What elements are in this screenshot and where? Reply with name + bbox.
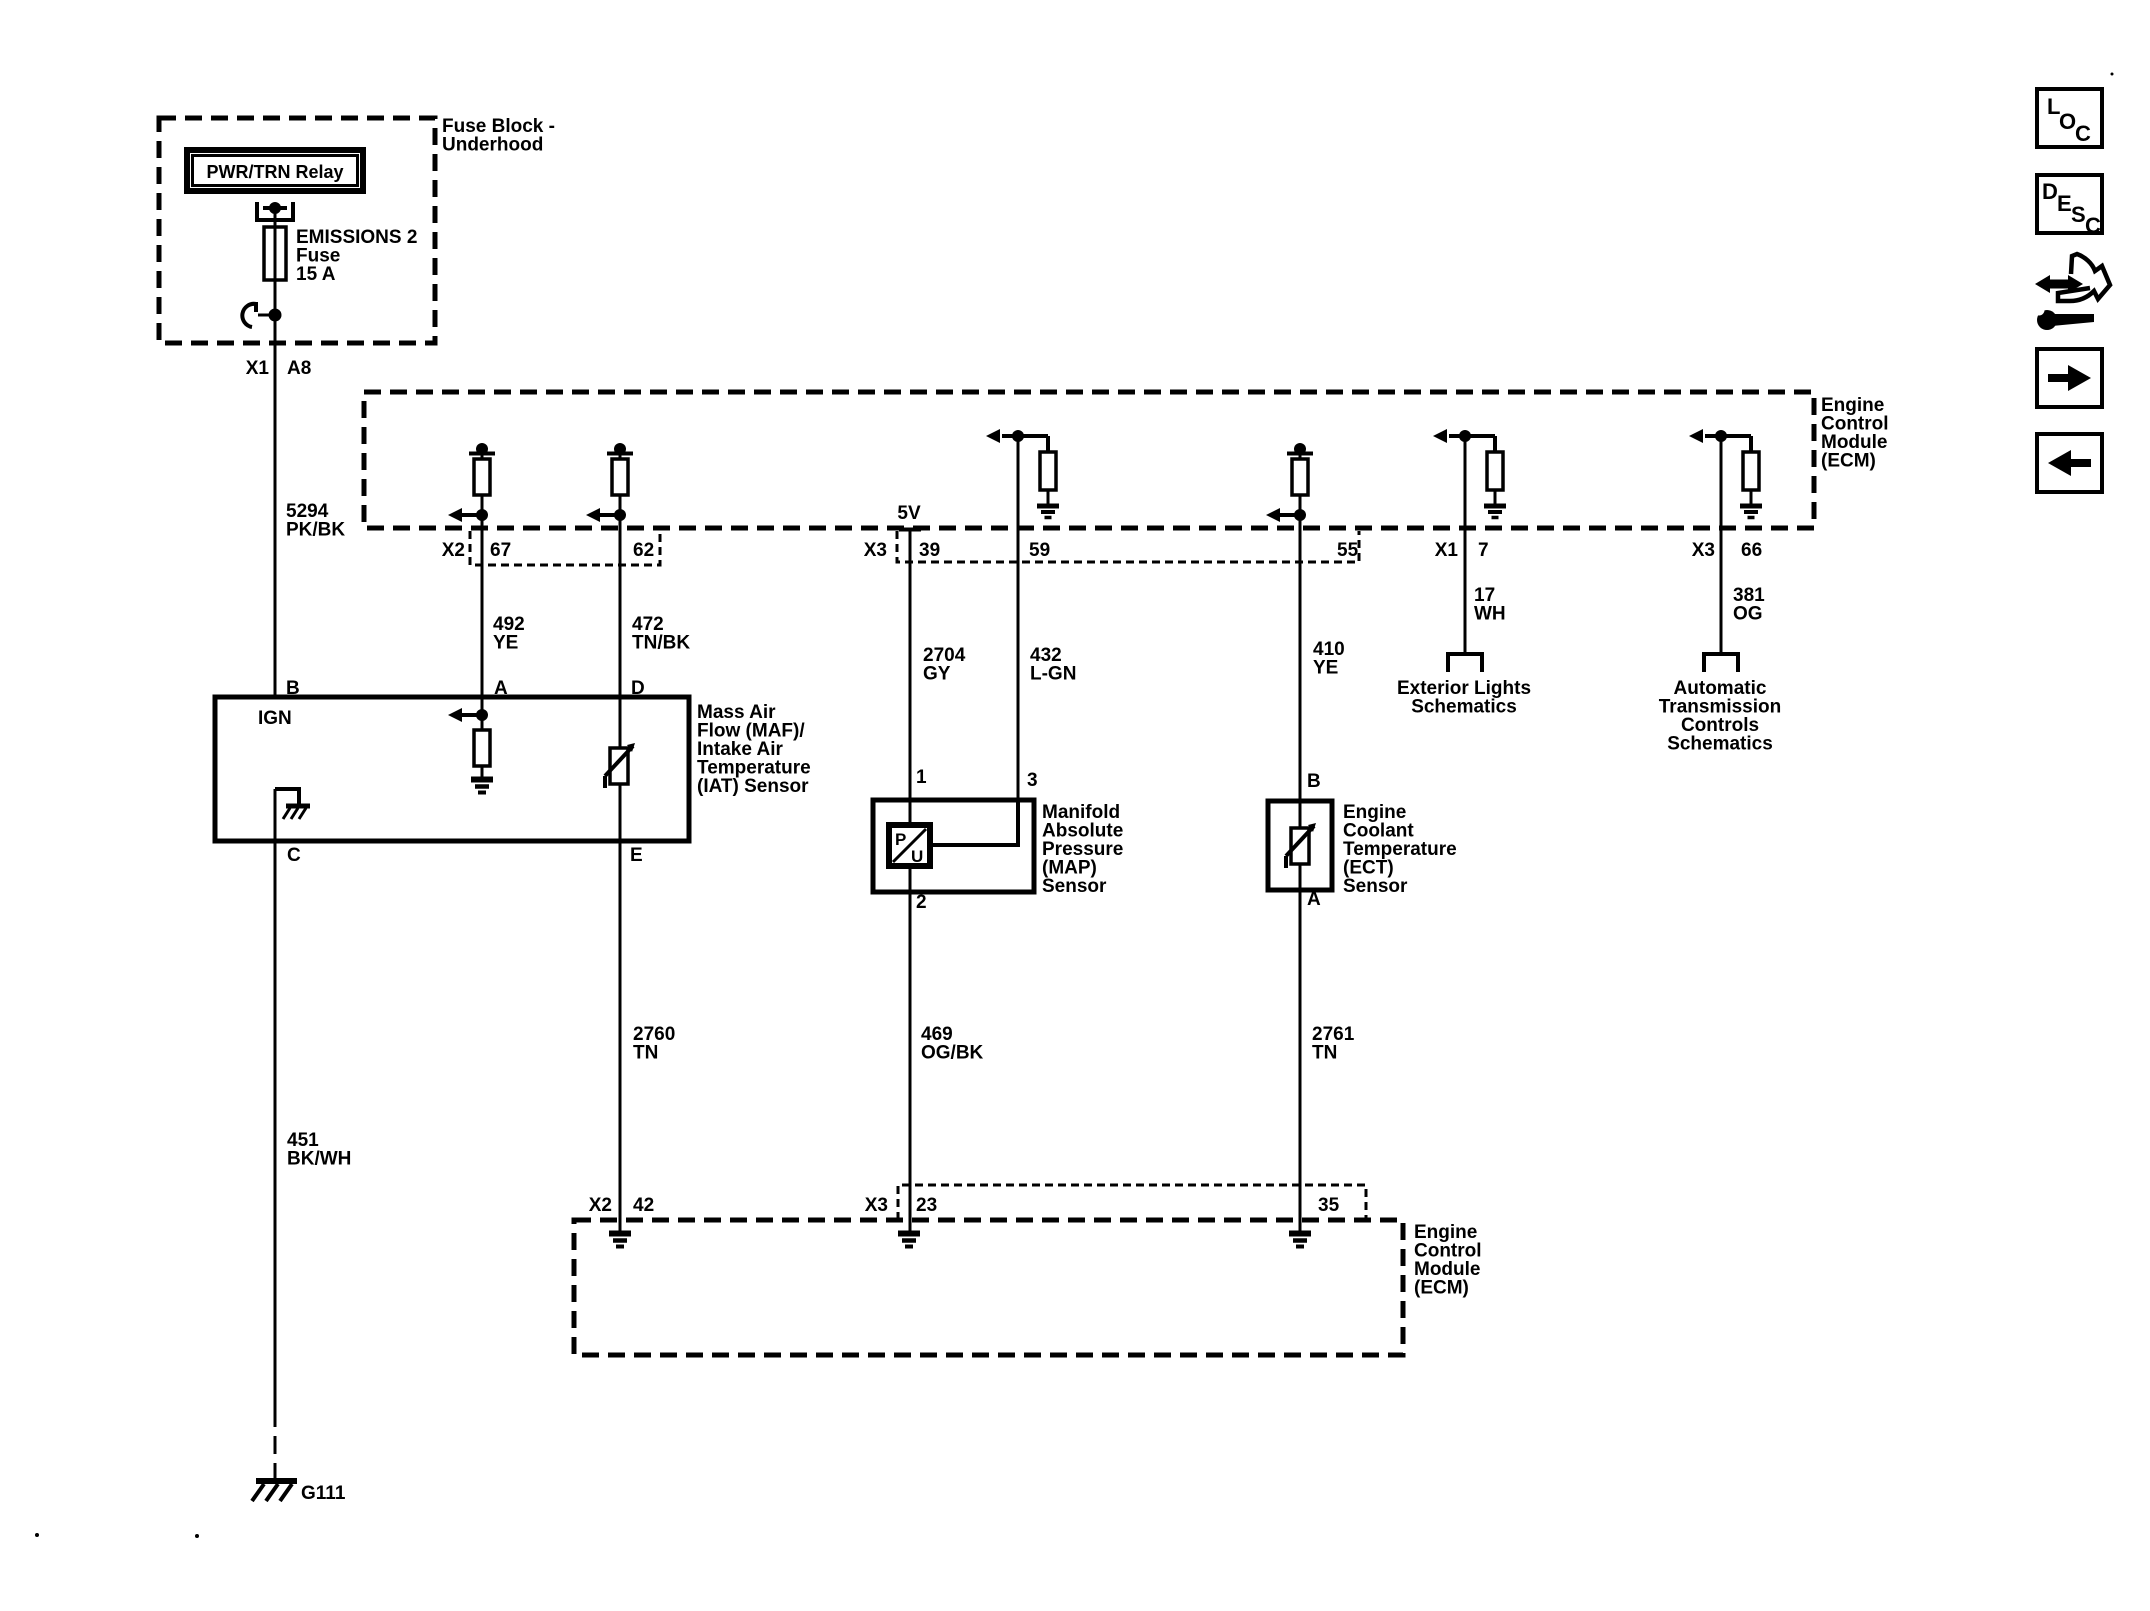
svg-text:C: C xyxy=(2085,213,2101,238)
svg-text:TN: TN xyxy=(633,1043,658,1064)
svg-text:GY: GY xyxy=(923,664,951,685)
svg-text:S: S xyxy=(2071,202,2086,227)
svg-text:X2: X2 xyxy=(589,1195,612,1216)
svg-text:OG: OG xyxy=(1733,604,1763,625)
svg-text:X3: X3 xyxy=(864,540,887,561)
svg-text:A8: A8 xyxy=(287,358,311,379)
svg-text:X1: X1 xyxy=(246,358,270,379)
svg-text:7: 7 xyxy=(1478,540,1489,561)
svg-text:(IAT) Sensor: (IAT) Sensor xyxy=(697,776,809,797)
svg-text:Schematics: Schematics xyxy=(1411,697,1517,718)
svg-text:IGN: IGN xyxy=(258,708,292,729)
svg-text:E: E xyxy=(2057,191,2072,216)
svg-text:67: 67 xyxy=(490,540,511,561)
svg-text:P: P xyxy=(895,830,906,849)
svg-text:B: B xyxy=(1307,771,1321,792)
svg-text:15 A: 15 A xyxy=(296,264,336,285)
svg-text:Sensor: Sensor xyxy=(1042,876,1107,897)
svg-text:C: C xyxy=(287,845,301,866)
svg-text:L-GN: L-GN xyxy=(1030,664,1076,685)
svg-text:66: 66 xyxy=(1741,540,1762,561)
svg-text:23: 23 xyxy=(916,1195,937,1216)
svg-text:59: 59 xyxy=(1029,540,1050,561)
svg-text:TN/BK: TN/BK xyxy=(632,633,690,654)
svg-text:PK/BK: PK/BK xyxy=(286,520,345,541)
svg-text:X3: X3 xyxy=(1692,540,1715,561)
svg-text:Underhood: Underhood xyxy=(442,135,543,156)
svg-text:C: C xyxy=(2075,121,2091,146)
svg-text:OG/BK: OG/BK xyxy=(921,1043,984,1064)
svg-text:35: 35 xyxy=(1318,1195,1340,1216)
svg-text:3: 3 xyxy=(1027,770,1038,791)
svg-text:YE: YE xyxy=(493,633,518,654)
svg-text:X1: X1 xyxy=(1435,540,1459,561)
svg-text:1: 1 xyxy=(916,767,927,788)
svg-text:PWR/TRN Relay: PWR/TRN Relay xyxy=(206,162,343,182)
svg-text:TN: TN xyxy=(1312,1043,1337,1064)
svg-text:A: A xyxy=(1307,889,1321,910)
svg-text:39: 39 xyxy=(919,540,940,561)
svg-text:(ECM): (ECM) xyxy=(1821,451,1876,472)
svg-text:D: D xyxy=(2042,179,2058,204)
svg-text:WH: WH xyxy=(1474,604,1506,625)
svg-text:X2: X2 xyxy=(442,540,465,561)
svg-text:G111: G111 xyxy=(301,1483,346,1504)
svg-text:X3: X3 xyxy=(865,1195,888,1216)
svg-text:E: E xyxy=(630,845,643,866)
svg-text:55: 55 xyxy=(1337,540,1359,561)
svg-text:Schematics: Schematics xyxy=(1667,734,1773,755)
svg-text:BK/WH: BK/WH xyxy=(287,1149,351,1170)
svg-text:U: U xyxy=(911,847,923,866)
svg-text:(ECM): (ECM) xyxy=(1414,1278,1469,1299)
svg-text:Sensor: Sensor xyxy=(1343,876,1408,897)
svg-text:2: 2 xyxy=(916,892,927,913)
svg-text:O: O xyxy=(2059,109,2076,134)
svg-text:42: 42 xyxy=(633,1195,654,1216)
svg-text:YE: YE xyxy=(1313,658,1338,679)
svg-text:5V: 5V xyxy=(897,503,921,524)
svg-text:62: 62 xyxy=(633,540,654,561)
